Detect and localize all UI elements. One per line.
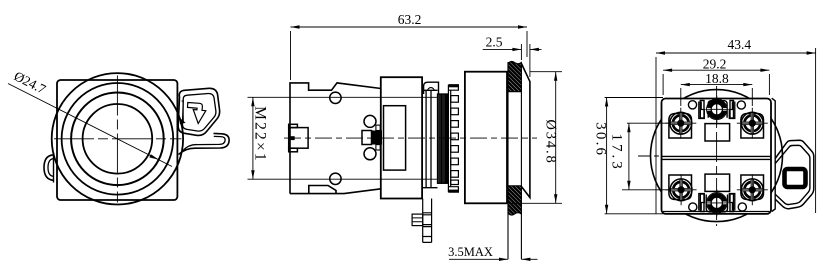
mounting flange rectangle xyxy=(381,77,422,198)
dim d34.8 lines xyxy=(509,72,562,204)
back view vertical centerline xyxy=(716,86,718,226)
side body outline xyxy=(290,83,381,194)
button front face xyxy=(521,64,530,198)
front view square body xyxy=(57,80,177,200)
side view centerline xyxy=(284,137,537,139)
svg-text:29.2: 29.2 xyxy=(703,57,727,72)
corner circle bottom-left xyxy=(689,203,697,211)
dim 3.5MAX leader xyxy=(449,258,538,260)
back latch inner xyxy=(775,145,810,204)
corner circle top-left xyxy=(688,101,696,109)
neck collar xyxy=(422,90,437,187)
svg-text:63.2: 63.2 xyxy=(398,12,422,27)
corner circle bottom-right xyxy=(738,203,746,211)
front view side tab (left bump) xyxy=(53,153,55,183)
center screw plates and guides top xyxy=(700,101,733,119)
panel hatch bottom xyxy=(508,186,521,215)
back latch root lip xyxy=(772,98,776,211)
dim 29.2 lines xyxy=(663,70,769,95)
plunger bar bottom xyxy=(423,199,432,243)
side contact small rects xyxy=(376,125,380,130)
corner bracket bottom-left xyxy=(699,194,705,211)
2.5 arrows xyxy=(512,48,521,51)
side contact circles near flange xyxy=(364,115,376,127)
front view circle d24.7 xyxy=(71,93,164,186)
screw plate bottom-right xyxy=(741,175,764,200)
panel lines xyxy=(508,62,521,259)
17.3 arrows xyxy=(627,123,630,132)
corner bracket bottom-right xyxy=(729,194,735,211)
bezel cylinder (d34.8) xyxy=(465,72,507,204)
terminal screw top-right xyxy=(737,108,768,139)
back view screws xyxy=(669,114,764,200)
front view horizontal centerline xyxy=(54,138,182,140)
dim 63.2 extension lines xyxy=(291,31,528,80)
back latch outer xyxy=(775,140,814,208)
svg-text:3.5MAX: 3.5MAX xyxy=(448,245,493,259)
front view vertical centerline xyxy=(116,76,118,203)
dim 43.4 lines xyxy=(656,48,816,214)
lock ring top cap xyxy=(448,85,458,88)
terminal screw bottom-right xyxy=(737,174,768,205)
18.8 arrows xyxy=(681,83,690,86)
contact window rect bottom xyxy=(705,174,730,191)
3.5MAX arrows xyxy=(499,258,508,261)
front view latch ring inner xyxy=(182,93,215,131)
back latch tongue xyxy=(785,169,806,187)
dim 17.3 lines xyxy=(622,123,671,190)
toothed lock ring bar xyxy=(448,85,450,193)
back bezel circle xyxy=(651,90,783,222)
svg-text:18.8: 18.8 xyxy=(705,71,729,86)
back square body xyxy=(662,99,772,214)
svg-text:M22×1: M22×1 xyxy=(252,106,269,163)
svg-text:17.3: 17.3 xyxy=(609,133,625,171)
screw plate top-left xyxy=(669,114,692,139)
back view horizontal centerline stub xyxy=(638,155,659,157)
back body inner bottom line xyxy=(663,210,770,212)
key nib on bushing xyxy=(424,82,439,94)
contact window rect top xyxy=(705,124,730,141)
leader arrowhead on d24.7 circle xyxy=(149,154,159,160)
dim 30.6 lines xyxy=(605,98,663,214)
screw plate top-right xyxy=(741,114,764,139)
corner circle top-right xyxy=(737,101,745,109)
threaded bushing M22 xyxy=(438,94,448,183)
side terminal clamp xyxy=(289,124,308,152)
front view circle r56 xyxy=(62,83,174,195)
terminal screw top-left xyxy=(665,108,696,139)
30.6 arrows xyxy=(605,98,608,107)
43.4 arrows xyxy=(656,51,665,54)
leader line d24.7 xyxy=(8,84,172,167)
corner bracket top-right xyxy=(729,102,735,119)
back view dimensions xyxy=(605,48,816,214)
63.2 arrows xyxy=(291,25,300,28)
dim 2.5 lines xyxy=(483,44,542,77)
lock ring bottom cap xyxy=(448,190,458,193)
svg-text:2.5: 2.5 xyxy=(486,35,503,50)
screw plate bottom-left xyxy=(669,175,692,200)
front view latch arrow symbol xyxy=(188,103,206,124)
front view bezel circle xyxy=(52,73,183,204)
corner bracket top-left xyxy=(699,102,705,119)
center screw bottom xyxy=(705,189,728,216)
side contact square white xyxy=(362,131,372,145)
dim 63.2 line xyxy=(291,26,528,28)
M22 arrows xyxy=(251,97,254,106)
lock ring teeth xyxy=(451,96,459,185)
front view button circle xyxy=(83,104,153,174)
front view latch slot marks xyxy=(182,101,184,121)
front view release latch ring (right side) xyxy=(178,88,219,135)
side body bottom bump xyxy=(309,186,336,194)
svg-text:30.6: 30.6 xyxy=(593,122,609,157)
flange inner recess rect xyxy=(384,106,406,170)
center screw top xyxy=(705,96,728,123)
M22x1 dimension line xyxy=(252,97,254,179)
svg-text:Ø34.8: Ø34.8 xyxy=(543,119,559,164)
center screw plates and guides bottom xyxy=(700,194,733,212)
29.2 arrows xyxy=(663,69,672,72)
back body midline double xyxy=(662,156,772,159)
plunger clip xyxy=(412,214,423,226)
side screw circle top xyxy=(330,92,341,103)
side contact black block xyxy=(372,131,383,145)
panel hatch top xyxy=(508,61,521,91)
terminal screw bottom-left xyxy=(666,174,697,205)
M22 cylinder / extension lines xyxy=(248,97,438,179)
d34.8 arrows xyxy=(554,72,557,81)
svg-text:43.4: 43.4 xyxy=(727,37,751,52)
dim 18.8 lines xyxy=(681,85,753,106)
front view latch lower tongue xyxy=(179,133,230,154)
side screw circle bottom xyxy=(330,173,341,184)
